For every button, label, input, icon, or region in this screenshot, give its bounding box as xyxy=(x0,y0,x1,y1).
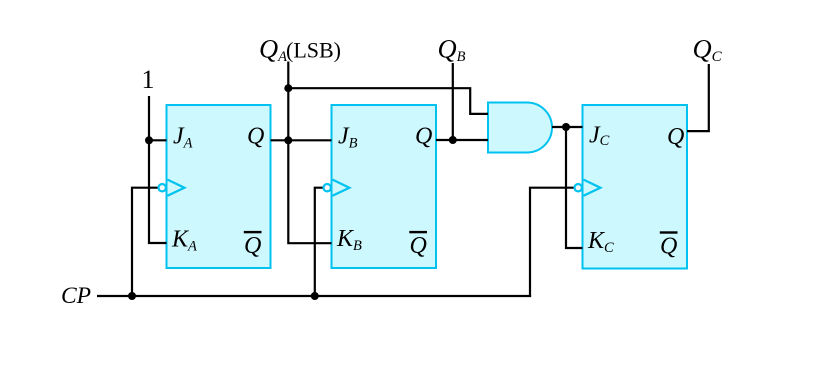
clock triangle FF C xyxy=(584,180,601,196)
node: junction CP/FFA xyxy=(128,292,136,300)
node: junction QB xyxy=(449,136,457,144)
clock triangle FF B xyxy=(333,180,350,196)
node: junction QA/top branch xyxy=(284,84,292,92)
node: junction CP/FFB xyxy=(311,292,319,300)
svg-text:CP: CP xyxy=(61,283,91,309)
wire: QA down to KB xyxy=(288,140,331,243)
svg-text:Q: Q xyxy=(660,233,677,259)
overline Q-bar FF B xyxy=(409,231,427,233)
AND gate G1 xyxy=(488,103,552,153)
svg-text:Q: Q xyxy=(667,124,684,150)
wire: AND output down to KC xyxy=(566,127,583,248)
wire: QA branch to AND top input xyxy=(288,88,488,114)
svg-text:Q: Q xyxy=(247,124,264,150)
wire: CP riser to FF C clock xyxy=(530,188,574,297)
wire: QB output to AND bottom input xyxy=(436,139,488,141)
svg-text:Q: Q xyxy=(244,233,261,259)
wire: QB label riser xyxy=(452,63,454,140)
overline Q-bar FF A xyxy=(244,231,262,233)
svg-text:QA(LSB): QA(LSB) xyxy=(259,33,341,65)
wire: CP riser to FF B clock xyxy=(315,188,323,297)
clock bubble FF B xyxy=(324,184,331,191)
node: junction AND out/KC xyxy=(562,123,570,131)
flip-flop A box xyxy=(167,105,271,268)
svg-text:1: 1 xyxy=(142,65,155,94)
svg-text:Q: Q xyxy=(415,124,432,150)
flip-flop C box xyxy=(583,105,688,269)
node: junction 1/JA xyxy=(145,136,153,144)
svg-text:Q: Q xyxy=(410,233,427,259)
wire: QC output up to label xyxy=(687,64,709,131)
clock bubble FF C xyxy=(575,184,582,191)
wire: logic-1 input down to KA with JA branch xyxy=(149,96,167,243)
clock triangle FF A xyxy=(168,180,185,196)
flip-flop B box xyxy=(332,105,437,268)
wire: QA output to JB xyxy=(271,139,332,141)
wire: JA stub xyxy=(149,139,167,141)
wire: QA riser to label xyxy=(287,62,289,141)
node: junction QA/JB xyxy=(284,136,292,144)
overline Q-bar FF C xyxy=(660,231,678,233)
clock bubble FF A xyxy=(159,184,166,191)
wire: CP riser to FF A clock xyxy=(132,188,158,297)
wire: AND output to JC xyxy=(552,126,583,128)
wire: CP bus xyxy=(97,295,531,297)
